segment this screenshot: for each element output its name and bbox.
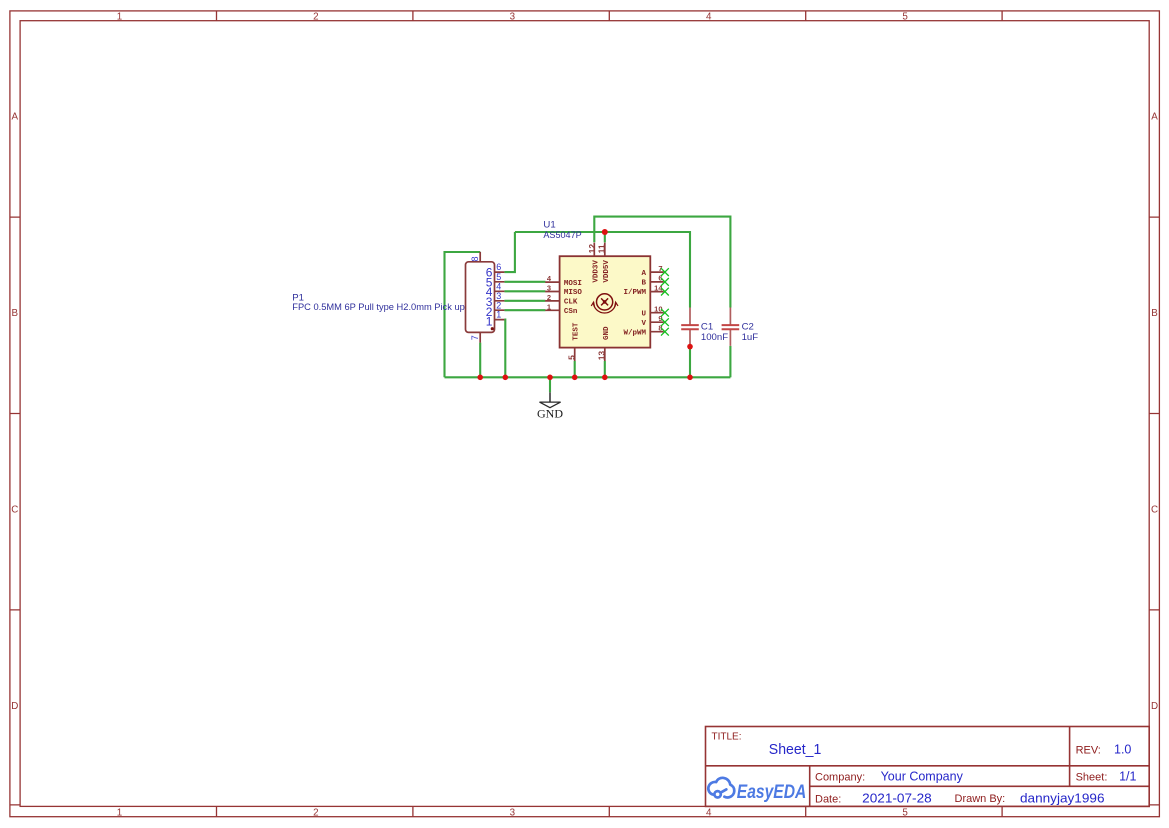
wire SPI MOSI xyxy=(504,281,545,283)
svg-text:B: B xyxy=(12,308,19,319)
svg-text:FPC 0.5MM 6P Pull type H2.0mm: FPC 0.5MM 6P Pull type H2.0mm Pick up xyxy=(292,302,465,313)
svg-text:B: B xyxy=(641,280,646,288)
svg-text:Sheet:: Sheet: xyxy=(1076,771,1108,783)
wire GND: P1 pin8 to left drop xyxy=(445,252,481,377)
svg-text:5: 5 xyxy=(567,355,577,360)
wire SPI MISO xyxy=(504,290,545,292)
svg-text:D: D xyxy=(1151,701,1158,712)
svg-text:CLK: CLK xyxy=(564,299,578,307)
capacitor C2 xyxy=(722,308,759,346)
svg-text:MOSI: MOSI xyxy=(564,280,582,288)
junction GND rail / P1 pin7 xyxy=(477,375,483,381)
wire GND rail bottom xyxy=(445,376,731,378)
no-connect flag pin I/PWM xyxy=(661,288,669,296)
junction GND rail / U1 TEST xyxy=(572,375,578,381)
ruler letters left xyxy=(11,112,18,712)
svg-text:C1: C1 xyxy=(701,322,713,333)
capacitor C1 xyxy=(681,308,728,347)
junction C1 lower lead xyxy=(687,344,693,350)
junction GND rail / C1 xyxy=(687,375,693,381)
svg-text:CSn: CSn xyxy=(564,308,578,316)
svg-text:Sheet_1: Sheet_1 xyxy=(769,741,822,758)
svg-text:1: 1 xyxy=(496,310,501,320)
junction GND rail / ground symbol xyxy=(547,375,553,381)
junction VDD3V rail / U1 pin11 xyxy=(602,229,608,235)
svg-text:U: U xyxy=(641,310,646,318)
svg-text:AS5047P: AS5047P xyxy=(543,230,581,241)
svg-text:1uF: 1uF xyxy=(742,332,759,343)
svg-text:W/pWM: W/pWM xyxy=(623,329,646,337)
connector P1 xyxy=(466,252,505,343)
svg-text:GND: GND xyxy=(603,326,611,340)
svg-text:Date:: Date: xyxy=(815,794,841,806)
U1 rotation symbol xyxy=(591,294,618,313)
junction GND rail / P1 pin1 xyxy=(503,375,509,381)
ground xyxy=(537,392,563,420)
svg-text:U1: U1 xyxy=(543,219,555,230)
svg-text:V: V xyxy=(641,320,646,328)
EasyEDA logo xyxy=(708,778,806,803)
wire P1 pin1 drop to GND rail xyxy=(503,320,506,378)
svg-text:C2: C2 xyxy=(742,322,754,333)
wire C1 lower lead to GND rail xyxy=(689,347,691,378)
svg-text:1: 1 xyxy=(547,302,551,311)
wire U1 TEST pin drop to GND rail xyxy=(574,361,576,377)
svg-text:VDD5V: VDD5V xyxy=(603,260,611,283)
svg-text:7: 7 xyxy=(470,335,480,340)
U1 pin numbers xyxy=(547,264,663,333)
wire U1 pin11 tap to VDD3V rail xyxy=(604,232,606,242)
ruler numbers top xyxy=(117,11,909,22)
svg-text:2: 2 xyxy=(313,11,318,22)
svg-text:Company:: Company: xyxy=(815,772,865,784)
svg-text:I/PWM: I/PWM xyxy=(623,289,646,297)
svg-text:MISO: MISO xyxy=(564,289,583,297)
wire net VDD3V horizontal rail to C1 xyxy=(515,232,690,308)
no-connect flag pin A xyxy=(661,268,669,276)
svg-text:6: 6 xyxy=(496,262,501,272)
svg-text:A: A xyxy=(12,112,19,123)
svg-text:11: 11 xyxy=(596,244,606,253)
svg-text:GND: GND xyxy=(537,407,563,421)
svg-text:B: B xyxy=(1151,308,1158,319)
svg-text:Your Company: Your Company xyxy=(881,770,964,784)
svg-text:4: 4 xyxy=(496,281,501,291)
svg-text:Drawn By:: Drawn By: xyxy=(955,793,1006,805)
IC U1 AS5047P body and pins xyxy=(545,243,664,361)
svg-text:VDD3V: VDD3V xyxy=(592,260,600,283)
svg-text:2021-07-28: 2021-07-28 xyxy=(862,791,932,806)
wire C2 lower lead to GND rail xyxy=(729,346,731,377)
svg-text:D: D xyxy=(11,701,18,712)
svg-text:1: 1 xyxy=(117,808,122,819)
svg-text:3: 3 xyxy=(547,284,551,293)
title block xyxy=(706,727,1150,807)
wire P1 pin7 drop to GND rail xyxy=(479,343,481,378)
svg-text:4: 4 xyxy=(706,11,712,22)
no-connect flag pin W/pWM xyxy=(661,328,669,336)
svg-text:1.0: 1.0 xyxy=(1114,743,1131,757)
junction GND rail / U1 GND xyxy=(602,375,608,381)
svg-text:13: 13 xyxy=(597,351,607,361)
svg-text:A: A xyxy=(1151,112,1158,123)
ruler letters right xyxy=(1151,112,1158,712)
wire SPI CLK xyxy=(504,300,545,302)
svg-text:8: 8 xyxy=(470,256,480,261)
wire net VDD5V: U1 pin12 riser to top rail to C2 xyxy=(594,217,730,308)
svg-text:5: 5 xyxy=(902,808,908,819)
svg-text:4: 4 xyxy=(706,808,712,819)
svg-text:TEST: TEST xyxy=(573,322,581,341)
svg-text:EasyEDA: EasyEDA xyxy=(737,781,807,803)
svg-text:5: 5 xyxy=(496,272,501,282)
wire net VDD3V: P1 pin6 to rail xyxy=(504,232,515,272)
svg-text:TITLE:: TITLE: xyxy=(712,731,742,742)
no-connect flag pin U xyxy=(661,309,669,317)
wire GND symbol stem xyxy=(549,377,551,392)
wire SPI CSn xyxy=(504,309,545,311)
svg-text:dannyjay1996: dannyjay1996 xyxy=(1020,791,1105,806)
wire U1 GND pin drop to GND rail xyxy=(604,361,606,377)
svg-text:5: 5 xyxy=(902,11,908,22)
svg-text:3: 3 xyxy=(510,808,516,819)
ruler numbers bottom xyxy=(117,808,909,819)
svg-text:C: C xyxy=(1151,504,1158,515)
svg-text:100nF: 100nF xyxy=(701,332,728,343)
no-connect flag pin V xyxy=(661,318,669,326)
U1 pin names xyxy=(564,260,647,341)
svg-text:1/1: 1/1 xyxy=(1119,769,1136,783)
svg-text:A: A xyxy=(641,270,646,278)
svg-text:REV:: REV: xyxy=(1076,745,1101,757)
svg-text:1: 1 xyxy=(486,315,493,329)
svg-text:3: 3 xyxy=(510,11,516,22)
no-connect flag pin B xyxy=(661,278,669,286)
svg-text:1: 1 xyxy=(117,11,122,22)
svg-text:C: C xyxy=(11,504,18,515)
svg-text:2: 2 xyxy=(547,293,551,302)
svg-text:2: 2 xyxy=(313,808,318,819)
